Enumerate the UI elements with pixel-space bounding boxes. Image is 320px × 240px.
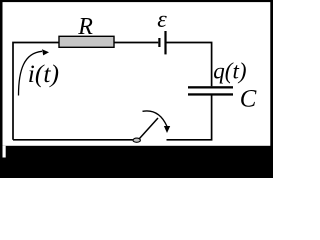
wire: battery to top-right corner and down to capacitor: [166, 43, 212, 87]
switch motion arc: [143, 111, 167, 126]
svg-text:q(t): q(t): [213, 59, 246, 84]
svg-text:C: C: [240, 85, 257, 112]
wire: bottom left segment: [13, 139, 133, 141]
white notch left of bar: [3, 146, 6, 158]
wire: capacitor to bottom-right corner, bottom right segment: [167, 96, 212, 140]
svg-text:i(t): i(t): [28, 59, 59, 88]
switch lever: [140, 118, 159, 139]
battery long plate: [164, 31, 166, 54]
current arrowhead: [42, 49, 49, 55]
capacitor top plate: [188, 86, 233, 88]
wire: top left segment to battery: [13, 43, 158, 140]
svg-text:R: R: [77, 14, 93, 40]
current arrow arc: [19, 51, 43, 95]
frame top border: [0, 0, 273, 2]
resistor R body: [59, 36, 114, 47]
capacitor bottom plate: [188, 93, 233, 95]
switch motion arrowhead: [164, 126, 170, 133]
frame left border: [0, 0, 3, 158]
battery short plate: [158, 38, 160, 47]
bottom black bar: [0, 146, 273, 178]
switch pivot ellipse: [133, 138, 140, 142]
frame right border: [270, 0, 273, 148]
svg-text:ε: ε: [157, 7, 167, 33]
